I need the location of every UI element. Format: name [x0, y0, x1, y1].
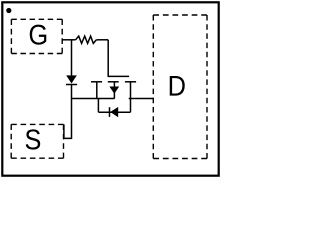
mosfet Q1 channel segment drain	[125, 81, 136, 83]
node junction at gate resistor	[71, 40, 73, 76]
drain rail to D box	[129, 98, 154, 100]
body diode loop left	[97, 99, 99, 113]
border frame	[2, 2, 218, 175]
body diode loop bottom wire	[98, 111, 130, 113]
mosfet Q1 gate plate	[108, 75, 130, 77]
mosfet Q1 channel segment source	[91, 81, 102, 83]
wire G box to resistor	[62, 39, 75, 41]
source rail	[72, 98, 115, 100]
wire gate drop	[107, 40, 109, 77]
terminal box D	[153, 15, 207, 159]
terminal box G	[11, 19, 62, 53]
wire source rail to S box	[64, 99, 72, 139]
mosfet Q1 body stub with arrow	[109, 82, 119, 99]
wire resistor to gate	[96, 39, 108, 41]
body diode D2	[110, 107, 119, 117]
mosfet Q1 drain stub	[130, 82, 132, 112]
wire zener to source rail	[71, 85, 73, 99]
mosfet Q1 source stub	[96, 82, 98, 99]
pin-1 dot	[6, 8, 11, 13]
mosfet Q1 channel segment body	[108, 81, 119, 83]
zener diode D1 gate-source	[66, 75, 77, 84]
terminal box S	[11, 124, 63, 158]
resistor R1	[76, 36, 97, 43]
